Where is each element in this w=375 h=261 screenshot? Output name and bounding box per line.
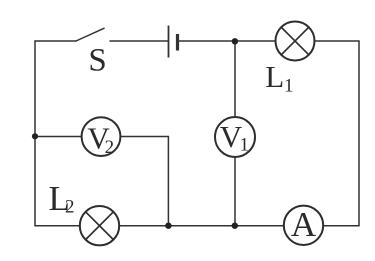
- svg-text:S: S: [88, 43, 106, 79]
- svg-text:1: 1: [240, 134, 250, 155]
- svg-text:2: 2: [65, 196, 75, 217]
- svg-text:2: 2: [105, 137, 115, 158]
- svg-text:1: 1: [284, 75, 294, 96]
- svg-text:L: L: [265, 59, 284, 94]
- svg-text:A: A: [291, 205, 317, 244]
